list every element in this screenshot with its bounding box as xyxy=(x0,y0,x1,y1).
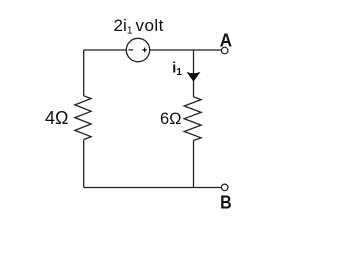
current arrow i1 (filled arrowhead pointing down) xyxy=(187,72,201,82)
voltage source minus sign xyxy=(129,49,134,51)
wire: top-left segment from left branch to voltage source xyxy=(84,49,127,51)
wire: bottom segment from left branch to node B xyxy=(84,187,222,189)
svg-text:A: A xyxy=(220,31,232,51)
wire: middle branch lower segment xyxy=(193,141,195,188)
svg-text:B: B xyxy=(220,193,232,213)
wire: middle branch upper segment (node at top wire) xyxy=(193,50,195,97)
wire: top segment from voltage source to node A xyxy=(150,49,222,51)
wire: left branch lower segment xyxy=(83,140,85,188)
svg-text:2i1 volt: 2i1 volt xyxy=(114,16,164,36)
terminal A (open circle) xyxy=(221,47,228,54)
resistor 6ohm (zigzag) xyxy=(184,97,201,141)
voltage source plus sign xyxy=(142,48,147,53)
resistor 4ohm (zigzag) xyxy=(75,96,91,140)
svg-text:6Ω: 6Ω xyxy=(160,110,182,128)
wire: left branch upper segment xyxy=(83,50,85,96)
dependent voltage source 2i1 volt (circle) xyxy=(126,38,149,61)
terminal B (open circle) xyxy=(221,184,228,191)
svg-text:4Ω: 4Ω xyxy=(45,108,68,128)
